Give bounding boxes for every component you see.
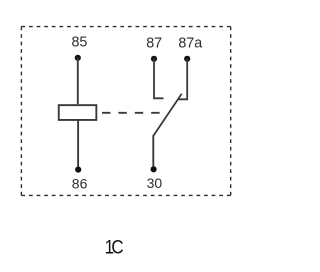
wire coil to 86	[77, 120, 79, 170]
svg-text:85: 85	[71, 34, 87, 50]
relay body outline bottom edge (dashed)	[21, 194, 230, 196]
terminal 30	[151, 166, 157, 172]
wire 87a contact (down and hook left)	[179, 59, 188, 100]
svg-text:1C: 1C	[105, 236, 124, 257]
coil K1	[59, 105, 97, 120]
relay body outline right edge (dashed)	[230, 27, 232, 196]
terminal 87	[151, 56, 157, 62]
wire blade to 30	[152, 135, 154, 169]
terminal 87a	[184, 56, 190, 62]
svg-text:30: 30	[147, 175, 163, 191]
relay body outline left edge (dashed)	[20, 27, 22, 196]
wire 85 to coil	[77, 58, 79, 104]
terminal 86	[75, 167, 81, 173]
svg-text:86: 86	[72, 176, 88, 192]
terminal 85	[75, 55, 81, 61]
relay type label 1C	[105, 236, 124, 257]
relay body outline top edge (dashed)	[21, 26, 230, 28]
svg-text:87a: 87a	[178, 36, 202, 52]
svg-text:87: 87	[146, 36, 162, 52]
wire 87 contact (down and hook right)	[154, 59, 164, 99]
switch blade (common contact arm)	[153, 94, 181, 136]
mechanical linkage (dashed) coil to blade	[96, 112, 166, 114]
